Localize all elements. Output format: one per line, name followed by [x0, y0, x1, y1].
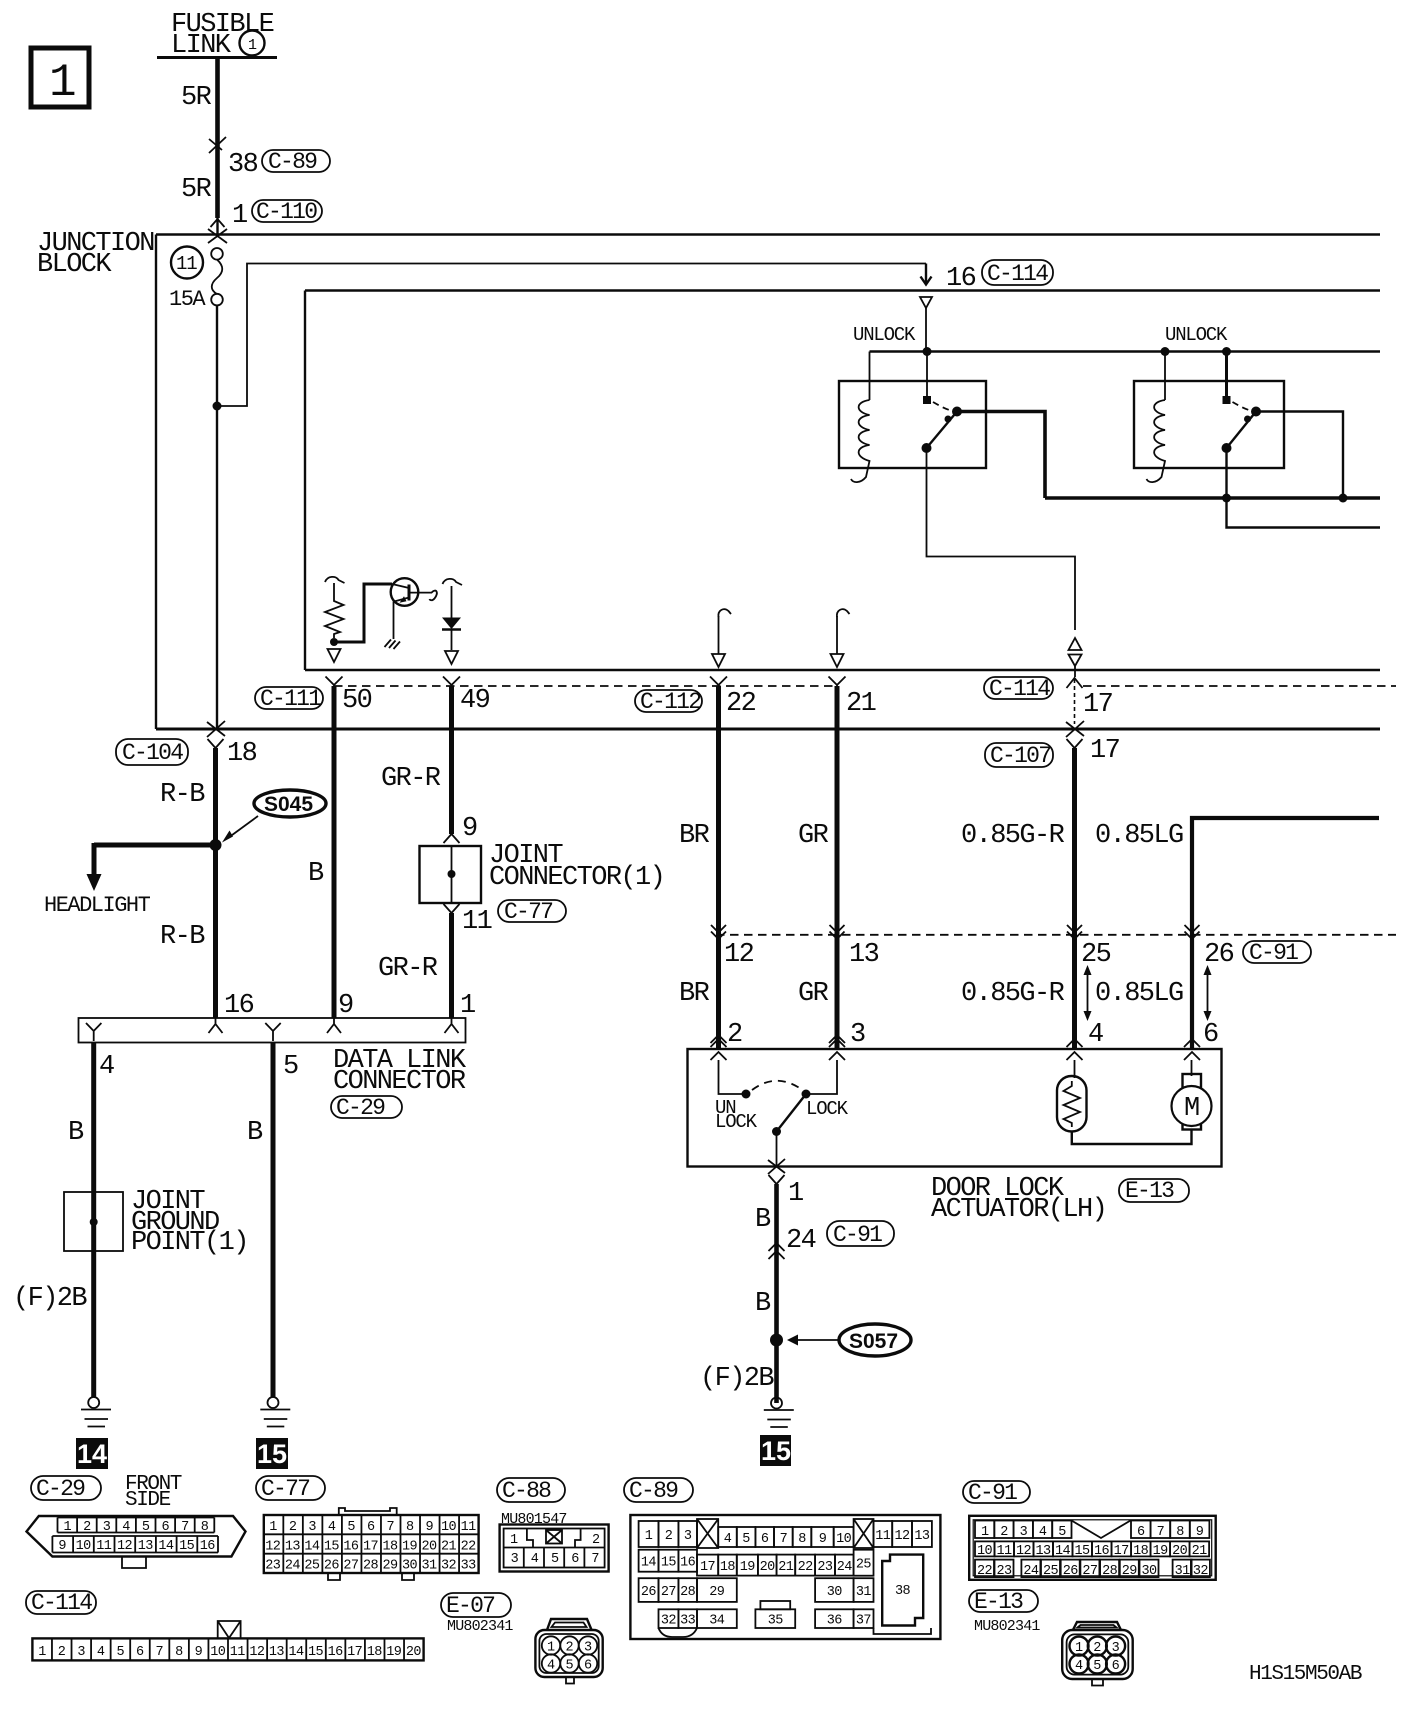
svg-text:3: 3: [684, 1529, 692, 1544]
svg-text:3: 3: [584, 1641, 592, 1656]
svg-text:4: 4: [1088, 1020, 1103, 1050]
pin 18 crossing symbol and label: [207, 721, 257, 769]
wire B from pin 50: [332, 686, 337, 1018]
svg-text:15A: 15A: [169, 287, 206, 312]
label FRONT SIDE: [125, 1473, 182, 1512]
ground symbol pin4: [81, 1397, 111, 1427]
capsule C-114 bottom: [26, 1590, 96, 1616]
relay K1 common feed wire: [926, 352, 928, 397]
svg-text:1: 1: [38, 1645, 46, 1660]
capsule C-114 mid: [984, 676, 1053, 702]
capsule C-88: [497, 1478, 565, 1504]
svg-text:C-29: C-29: [336, 1095, 385, 1121]
svg-text:15: 15: [1075, 1544, 1091, 1559]
control unit box bottom edge: [305, 669, 1380, 671]
actuator pin 2 symbol: [711, 1035, 727, 1060]
DLC pin 16 symbol: [209, 1018, 223, 1033]
data link connector box: [79, 1018, 466, 1043]
svg-text:22: 22: [461, 1539, 477, 1554]
svg-text:12: 12: [895, 1529, 911, 1544]
svg-text:21: 21: [778, 1560, 794, 1575]
svg-text:C-77: C-77: [261, 1476, 309, 1502]
svg-text:49: 49: [460, 686, 490, 716]
svg-text:15: 15: [257, 1439, 287, 1469]
control unit box left edge: [304, 291, 306, 671]
svg-text:12: 12: [724, 940, 754, 970]
svg-text:19: 19: [386, 1645, 402, 1660]
ground tag 15 right: [760, 1435, 791, 1466]
svg-text:6: 6: [367, 1520, 375, 1535]
svg-text:27: 27: [1082, 1564, 1098, 1579]
svg-text:28: 28: [363, 1559, 379, 1574]
pin 50 symbol and label: [326, 677, 372, 717]
svg-text:UNLOCK: UNLOCK: [853, 324, 916, 346]
svg-text:R-B: R-B: [160, 922, 205, 952]
svg-text:S045: S045: [264, 793, 313, 816]
crossing G-R at C-91: [1067, 925, 1082, 939]
svg-text:2: 2: [566, 1641, 574, 1656]
resistor R1: [325, 583, 344, 638]
svg-text:4: 4: [1039, 1525, 1047, 1540]
headlight feed wire: [94, 843, 216, 848]
junction dot relay2 common: [1222, 347, 1231, 356]
connector E-13 drawing: [1062, 1622, 1133, 1686]
junction block top edge: [156, 233, 1380, 235]
connector C-114 drawing: [32, 1621, 423, 1660]
svg-text:31: 31: [1175, 1564, 1191, 1579]
unlock output bus y498: [1045, 496, 1380, 500]
door lock actuator label: [931, 1174, 1106, 1225]
double arrow pin25 to pin4: [1084, 965, 1092, 1021]
capsule E-13 bottom: [969, 1589, 1038, 1615]
svg-text:16: 16: [224, 991, 254, 1021]
svg-text:29: 29: [1122, 1564, 1138, 1579]
label UN LOCK: [715, 1097, 758, 1133]
DLC pin 4 symbol: [86, 1023, 101, 1041]
svg-text:5: 5: [1093, 1659, 1101, 1674]
svg-text:10: 10: [977, 1544, 993, 1559]
svg-text:22: 22: [726, 689, 756, 719]
wire B pin5 to ground: [271, 1042, 276, 1397]
svg-text:5: 5: [142, 1520, 150, 1535]
svg-text:20: 20: [406, 1645, 422, 1660]
svg-text:C-114: C-114: [31, 1590, 92, 1616]
svg-text:12: 12: [249, 1645, 265, 1660]
capsule C-89: [262, 149, 330, 175]
svg-text:7: 7: [386, 1520, 394, 1535]
svg-text:13: 13: [1036, 1544, 1052, 1559]
unlock bus wire: [870, 350, 1381, 352]
svg-text:6: 6: [162, 1520, 170, 1535]
svg-text:5R: 5R: [181, 175, 212, 205]
in-line connector 24 C-91: [769, 1226, 816, 1259]
svg-text:GR-R: GR-R: [378, 954, 438, 984]
svg-text:2: 2: [58, 1645, 66, 1660]
svg-text:11: 11: [461, 1520, 477, 1535]
junction block label: [37, 229, 154, 280]
svg-text:M: M: [1184, 1094, 1199, 1124]
fuse element 15A: [169, 248, 223, 312]
svg-text:14: 14: [158, 1539, 174, 1554]
svg-text:11: 11: [230, 1645, 246, 1660]
capsule C-29 bottom: [31, 1476, 101, 1502]
relay K2 box: [1134, 381, 1284, 468]
relay K1 output wire thick: [957, 412, 1045, 499]
lock switch pivot: [772, 1127, 781, 1136]
svg-text:MU802341: MU802341: [447, 1618, 513, 1635]
svg-text:18: 18: [382, 1539, 398, 1554]
capsule C-111: [255, 686, 323, 712]
capsule C-91 right: [1243, 940, 1311, 966]
svg-text:(F)2B: (F)2B: [13, 1284, 87, 1314]
svg-text:31: 31: [422, 1559, 438, 1574]
svg-text:POINT(1): POINT(1): [131, 1228, 248, 1258]
svg-text:6: 6: [571, 1552, 579, 1567]
triangle marker pin 50: [328, 649, 341, 662]
svg-text:C-104: C-104: [122, 740, 183, 766]
capsule C-29: [331, 1095, 402, 1121]
pin 22 symbol and label: [710, 677, 756, 720]
svg-text:7: 7: [181, 1520, 189, 1535]
svg-text:5: 5: [283, 1052, 298, 1082]
actuator pin 1 crossing: [768, 1159, 803, 1209]
svg-text:6: 6: [761, 1532, 769, 1547]
wire 0.85G-R pin17 down: [1072, 748, 1077, 1049]
diode D1: [442, 586, 461, 650]
svg-text:7: 7: [156, 1645, 164, 1660]
wire GR-R from pin 49: [449, 686, 454, 834]
svg-text:11: 11: [96, 1539, 112, 1554]
wire branch up to row C-114 16: [217, 264, 926, 407]
svg-text:B: B: [247, 1118, 263, 1148]
svg-text:1: 1: [645, 1529, 653, 1544]
svg-text:9: 9: [58, 1539, 66, 1554]
harness boundary line C-104/C-107: [156, 728, 1380, 731]
svg-text:2: 2: [1093, 1641, 1101, 1656]
junction dot bus498 relay2 fixed: [1222, 494, 1231, 503]
svg-text:37: 37: [856, 1614, 872, 1629]
door ajar resistor feed: [1074, 1060, 1076, 1078]
svg-text:16: 16: [1094, 1544, 1110, 1559]
svg-text:11: 11: [997, 1544, 1013, 1559]
svg-text:30: 30: [1142, 1564, 1158, 1579]
capsule C-91 bottom: [963, 1480, 1030, 1506]
svg-text:8: 8: [1176, 1525, 1184, 1540]
svg-text:BLOCK: BLOCK: [37, 250, 112, 280]
svg-text:26: 26: [324, 1559, 340, 1574]
svg-text:B: B: [755, 1289, 771, 1319]
svg-text:16: 16: [680, 1556, 696, 1571]
svg-text:1: 1: [547, 1641, 555, 1656]
svg-text:CONNECTOR: CONNECTOR: [333, 1067, 466, 1097]
svg-text:4: 4: [531, 1552, 539, 1567]
svg-text:C-114: C-114: [987, 261, 1048, 287]
double arrow pin26 to pin6: [1204, 965, 1212, 1021]
svg-text:4: 4: [99, 1052, 114, 1082]
svg-text:26: 26: [1063, 1564, 1079, 1579]
svg-text:6: 6: [136, 1645, 144, 1660]
svg-text:32: 32: [1193, 1564, 1209, 1579]
wire 0.85LG from right: [1192, 818, 1379, 1049]
svg-text:6: 6: [584, 1659, 592, 1674]
relay K2 coil: [1147, 400, 1166, 482]
svg-text:1: 1: [981, 1525, 989, 1540]
relay K1 common contact: [923, 396, 931, 404]
connector C-77 drawing: [264, 1508, 479, 1580]
connector C-29 drawing: [27, 1516, 246, 1568]
svg-text:C-89: C-89: [268, 149, 317, 175]
svg-text:28: 28: [680, 1585, 696, 1600]
svg-text:29: 29: [709, 1585, 725, 1600]
svg-text:C-91: C-91: [968, 1480, 1017, 1506]
dashed connector row C-114: [1083, 685, 1396, 687]
svg-text:2: 2: [83, 1520, 91, 1535]
data link connector label: [333, 1046, 467, 1097]
svg-text:17: 17: [347, 1645, 363, 1660]
relay K2 common contact: [1223, 396, 1231, 404]
pin 17 C-114 arrow symbol: [1067, 678, 1113, 724]
ground symbol pin5: [260, 1397, 290, 1427]
wire GR pin21 down: [835, 686, 840, 1049]
svg-text:3: 3: [850, 1020, 865, 1050]
actuator pin 6 symbol: [1184, 1039, 1200, 1060]
DLC pin labels 16 9 1: [224, 991, 475, 1021]
svg-text:10: 10: [210, 1645, 226, 1660]
svg-text:21: 21: [846, 689, 876, 719]
svg-text:E-07: E-07: [446, 1593, 494, 1619]
svg-text:23: 23: [265, 1559, 281, 1574]
svg-text:11: 11: [462, 907, 492, 937]
svg-text:14: 14: [288, 1645, 304, 1660]
DLC pin 1 symbol: [445, 1018, 459, 1033]
svg-text:30: 30: [827, 1585, 843, 1600]
fusible link (1) label: [171, 10, 274, 61]
svg-text:C-91: C-91: [1249, 940, 1298, 966]
svg-text:18: 18: [367, 1645, 383, 1660]
svg-text:BR: BR: [679, 821, 710, 851]
DLC pin 5 symbol: [265, 1023, 280, 1041]
joint connector (1) box: [420, 841, 665, 903]
svg-text:5R: 5R: [181, 83, 212, 113]
capsule C-114 top: [982, 260, 1053, 287]
svg-text:5: 5: [551, 1552, 559, 1567]
svg-text:2: 2: [289, 1520, 297, 1535]
svg-text:E-13: E-13: [974, 1589, 1023, 1615]
pin 1 C-110 entry mark: [208, 201, 247, 243]
crossing LG at C-91: [1185, 925, 1200, 939]
svg-text:15: 15: [179, 1539, 195, 1554]
pin 17 C-107 crossing symbol and label: [1066, 721, 1120, 766]
wire B actuator pin1: [774, 1184, 779, 1403]
svg-text:21: 21: [441, 1539, 457, 1554]
svg-text:50: 50: [342, 686, 372, 716]
svg-text:21: 21: [1192, 1544, 1208, 1559]
svg-text:20: 20: [760, 1560, 776, 1575]
svg-text:11: 11: [875, 1529, 891, 1544]
relay K1 armature: [922, 407, 963, 454]
wire 5R lower segment: [181, 175, 225, 234]
junction dot bus498 relay2 output: [1339, 494, 1348, 503]
capsule C-89 bottom: [624, 1478, 693, 1504]
svg-text:2: 2: [1000, 1525, 1008, 1540]
svg-text:7: 7: [780, 1532, 788, 1547]
svg-text:35: 35: [768, 1614, 784, 1629]
svg-text:15: 15: [661, 1556, 677, 1571]
svg-text:26: 26: [641, 1585, 657, 1600]
transistor emitter ground: [385, 602, 401, 650]
lock switch output wire: [776, 1132, 778, 1167]
svg-text:18: 18: [1133, 1544, 1149, 1559]
fuse output wire down to pin 18: [216, 305, 218, 729]
actuator pin 4 symbol: [1067, 1039, 1083, 1060]
svg-text:1: 1: [248, 37, 257, 54]
crossing BR at C-91: [711, 925, 726, 939]
svg-text:13: 13: [138, 1539, 154, 1554]
svg-text:12: 12: [117, 1539, 133, 1554]
splice S057: [770, 1324, 911, 1356]
door ajar resistor oval: [1057, 1076, 1087, 1132]
connector C-88 drawing: [500, 1525, 609, 1572]
svg-text:3: 3: [511, 1552, 519, 1567]
svg-text:C-91: C-91: [833, 1222, 882, 1248]
crossing GR at C-91: [830, 925, 845, 939]
svg-text:18: 18: [720, 1560, 736, 1575]
svg-text:17: 17: [700, 1560, 716, 1575]
in-line connector crossing C-89 pin 38: [209, 137, 258, 180]
svg-text:C-88: C-88: [502, 1478, 551, 1504]
door lock actuator box: [688, 1049, 1222, 1167]
svg-text:10: 10: [836, 1532, 852, 1547]
actuator pin 3 symbol: [829, 1035, 845, 1060]
svg-text:3: 3: [1112, 1641, 1120, 1656]
connector C-89 drawing: [630, 1515, 940, 1639]
svg-text:2: 2: [665, 1529, 673, 1544]
svg-text:9: 9: [338, 991, 353, 1021]
wire BR pin22 down: [716, 686, 721, 1049]
connector C-91 drawing: [969, 1516, 1215, 1580]
svg-text:SIDE: SIDE: [125, 1489, 171, 1512]
svg-text:19: 19: [402, 1539, 418, 1554]
svg-text:8: 8: [201, 1520, 209, 1535]
relay K1 coil feed wire: [869, 352, 871, 401]
DLC pin labels 4 5: [99, 1052, 298, 1082]
svg-text:13: 13: [269, 1645, 285, 1660]
fusible link bus bar: [157, 56, 277, 59]
svg-text:8: 8: [175, 1645, 183, 1660]
relay K2 output wire: [1256, 412, 1343, 499]
svg-text:29: 29: [382, 1559, 398, 1574]
wire GR-R lower to DLC pin1: [449, 913, 454, 1018]
junction block left edge: [155, 235, 157, 730]
relay K1 throw dashed: [933, 402, 951, 411]
junction dot relay1 common: [923, 347, 932, 356]
capsule C-112: [635, 689, 702, 715]
joint ground point (1): [64, 1187, 248, 1258]
svg-text:R-B: R-B: [160, 780, 205, 810]
svg-text:C-111: C-111: [260, 686, 321, 712]
svg-text:C-107: C-107: [990, 743, 1050, 769]
svg-text:4: 4: [328, 1520, 336, 1535]
ground symbol S057: [764, 1398, 794, 1428]
svg-text:2: 2: [592, 1533, 600, 1548]
svg-text:22: 22: [977, 1564, 993, 1579]
relay K2 throw dashed: [1233, 402, 1251, 411]
svg-text:20: 20: [1172, 1544, 1188, 1559]
base drive wire: [334, 584, 392, 642]
fuse 11 circle label: [171, 247, 203, 279]
svg-text:4: 4: [1075, 1659, 1083, 1674]
svg-text:4: 4: [122, 1520, 130, 1535]
ground tag 15: [256, 1438, 288, 1469]
relay K1 fixed contact wire to C-114 17: [927, 448, 1076, 630]
resistor to motor link wire: [1072, 1130, 1192, 1145]
page frame number box 1: [31, 48, 89, 109]
junction dot resistor base node: [330, 638, 338, 646]
lock switch armature: [777, 1094, 807, 1132]
pin 49 symbol and label: [443, 677, 490, 717]
diode D1 stub hook: [443, 579, 463, 585]
svg-text:24: 24: [837, 1560, 853, 1575]
capsule C-77 bottom: [256, 1476, 325, 1502]
svg-text:C-89: C-89: [629, 1478, 678, 1504]
svg-text:14: 14: [641, 1556, 657, 1571]
lock switch unlock contact: [742, 1090, 751, 1099]
svg-text:13: 13: [914, 1529, 930, 1544]
svg-text:6: 6: [1137, 1525, 1145, 1540]
svg-text:33: 33: [680, 1614, 696, 1629]
lock switch lock side wire: [806, 1060, 837, 1094]
wire R-B pin18 to splice: [213, 748, 218, 1018]
svg-text:15: 15: [308, 1645, 324, 1660]
svg-text:32: 32: [441, 1559, 457, 1574]
svg-text:GR: GR: [798, 979, 829, 1009]
svg-text:9: 9: [195, 1645, 203, 1660]
pin 11 joint connector symbol and label: [444, 904, 492, 937]
svg-text:3: 3: [77, 1645, 85, 1660]
svg-text:17: 17: [1114, 1544, 1130, 1559]
svg-text:10: 10: [441, 1520, 457, 1535]
capsule C-110: [252, 199, 322, 225]
relay K2 coil feed wire: [1164, 352, 1166, 401]
svg-text:MU802341: MU802341: [974, 1618, 1040, 1635]
capsule C-77 joint connector: [498, 899, 566, 925]
svg-text:GR: GR: [798, 821, 829, 851]
svg-text:36: 36: [827, 1614, 843, 1629]
svg-text:1: 1: [64, 1520, 72, 1535]
svg-text:25: 25: [304, 1559, 320, 1574]
svg-text:38: 38: [228, 150, 258, 180]
motor M feed: [1191, 1060, 1193, 1076]
svg-text:1: 1: [232, 201, 247, 231]
transistor Q1: [391, 578, 419, 606]
svg-text:0.85LG: 0.85LG: [1095, 821, 1183, 851]
svg-text:24: 24: [786, 1226, 816, 1256]
relay K1 coil: [851, 400, 870, 482]
svg-text:UNLOCK: UNLOCK: [1165, 324, 1228, 346]
svg-text:25: 25: [856, 1558, 872, 1573]
relay K2 common feed wire: [1225, 352, 1228, 397]
svg-text:0.85G-R: 0.85G-R: [961, 821, 1065, 851]
pin 9 joint connector symbol and label: [444, 814, 478, 844]
svg-text:1: 1: [49, 57, 77, 109]
svg-text:19: 19: [740, 1560, 756, 1575]
svg-text:5: 5: [1058, 1525, 1066, 1540]
svg-text:25: 25: [1043, 1564, 1059, 1579]
lock switch lock contact: [802, 1090, 811, 1099]
svg-text:10: 10: [76, 1539, 92, 1554]
svg-text:C-29: C-29: [36, 1476, 85, 1502]
svg-text:1: 1: [269, 1520, 277, 1535]
